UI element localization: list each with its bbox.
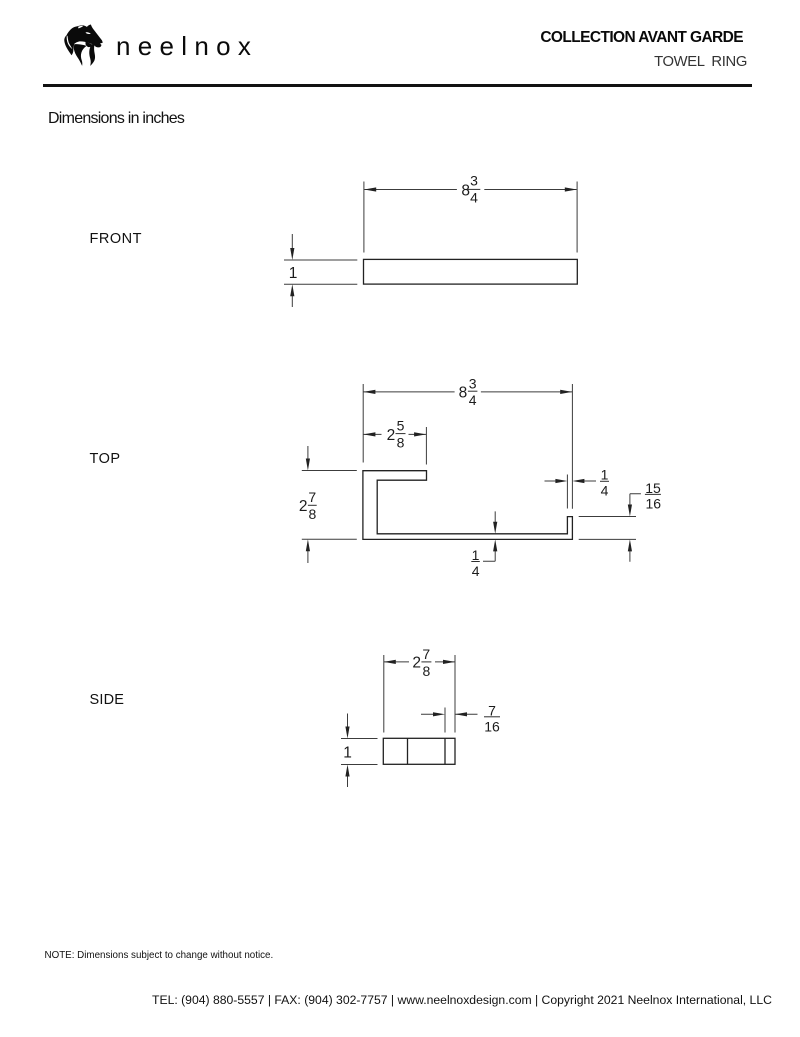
left strand [74, 44, 87, 66]
dimensions note [48, 110, 184, 128]
svg-text:7: 7 [308, 489, 316, 505]
svg-text:4: 4 [472, 563, 480, 579]
arrows TOP 2 5/8 [363, 432, 375, 436]
svg-text:7: 7 [488, 702, 496, 718]
dim 1 vertical [291, 234, 293, 307]
dim 1/4 bottom [483, 511, 495, 561]
arrows FRONT 8 3/4 [364, 187, 376, 191]
header rule [43, 84, 752, 87]
view label FRONT [90, 231, 142, 247]
FRONT bar rectangle [364, 259, 578, 284]
dim 1/4 flange [545, 475, 597, 509]
svg-text:1: 1 [472, 547, 480, 563]
wordmark neelnox [116, 31, 258, 62]
arrows 15/16 [628, 505, 632, 517]
svg-text:2: 2 [299, 498, 308, 515]
arrows SIDE 1 [345, 727, 349, 739]
svg-text:8: 8 [309, 506, 317, 522]
view label SIDE [90, 692, 125, 708]
arrows TOP 8 3/4 [363, 390, 375, 394]
dim 2 7/8 left [302, 471, 357, 540]
ext lines 8 3/4 [364, 182, 577, 253]
svg-text:4: 4 [601, 483, 609, 499]
eye white [86, 32, 91, 34]
svg-text:2: 2 [412, 654, 421, 671]
dim 2 5/8 [363, 433, 426, 435]
SIDE rect [383, 738, 455, 764]
dim 2 7/8 [384, 661, 455, 663]
footer contact [152, 993, 772, 1007]
svg-text:1: 1 [343, 744, 352, 761]
product title [654, 54, 747, 70]
dim 8 3/4 line [363, 391, 572, 393]
fraction bars [467, 188, 480, 190]
right strand (neck strip) [89, 44, 95, 66]
arrows 1/4 bottom [493, 522, 497, 534]
svg-text:15: 15 [645, 480, 661, 496]
TOP C-channel profile [363, 471, 573, 540]
svg-text:1: 1 [601, 467, 609, 483]
svg-text:8: 8 [397, 434, 405, 450]
arrows TOP 2 7/8 [306, 459, 310, 471]
svg-text:16: 16 [484, 718, 500, 734]
junction filler [86, 42, 93, 47]
crescent white [67, 36, 73, 50]
arrows SIDE 2 7/8 [384, 660, 396, 664]
view label TOP [90, 451, 121, 467]
arrows 1/4 flange [555, 479, 567, 483]
dim 8 3/4 line [364, 189, 576, 191]
svg-text:1: 1 [289, 265, 298, 282]
svg-text:4: 4 [469, 392, 477, 408]
logo horse head [60, 20, 108, 68]
svg-text:7: 7 [422, 646, 430, 662]
svg-text:8: 8 [461, 182, 470, 199]
footer note [45, 950, 274, 961]
dim 1 [341, 739, 378, 765]
dim 1 ext lines [284, 260, 357, 284]
svg-text:3: 3 [470, 173, 478, 189]
dim 15/16 [579, 517, 636, 540]
svg-text:5: 5 [397, 418, 405, 434]
forelock white [78, 26, 83, 29]
arrows SIDE 7/16 [433, 712, 445, 716]
dim 7/16 [421, 708, 478, 733]
svg-text:16: 16 [646, 496, 662, 512]
svg-text:4: 4 [470, 189, 478, 205]
svg-text:2: 2 [387, 427, 396, 444]
svg-text:3: 3 [469, 375, 477, 391]
head + mane + tail [64, 25, 102, 56]
arrows FRONT 1 [290, 248, 294, 260]
ext lines [363, 384, 572, 509]
svg-text:8: 8 [459, 385, 468, 402]
collection title [540, 29, 743, 47]
svg-text:8: 8 [423, 663, 431, 679]
